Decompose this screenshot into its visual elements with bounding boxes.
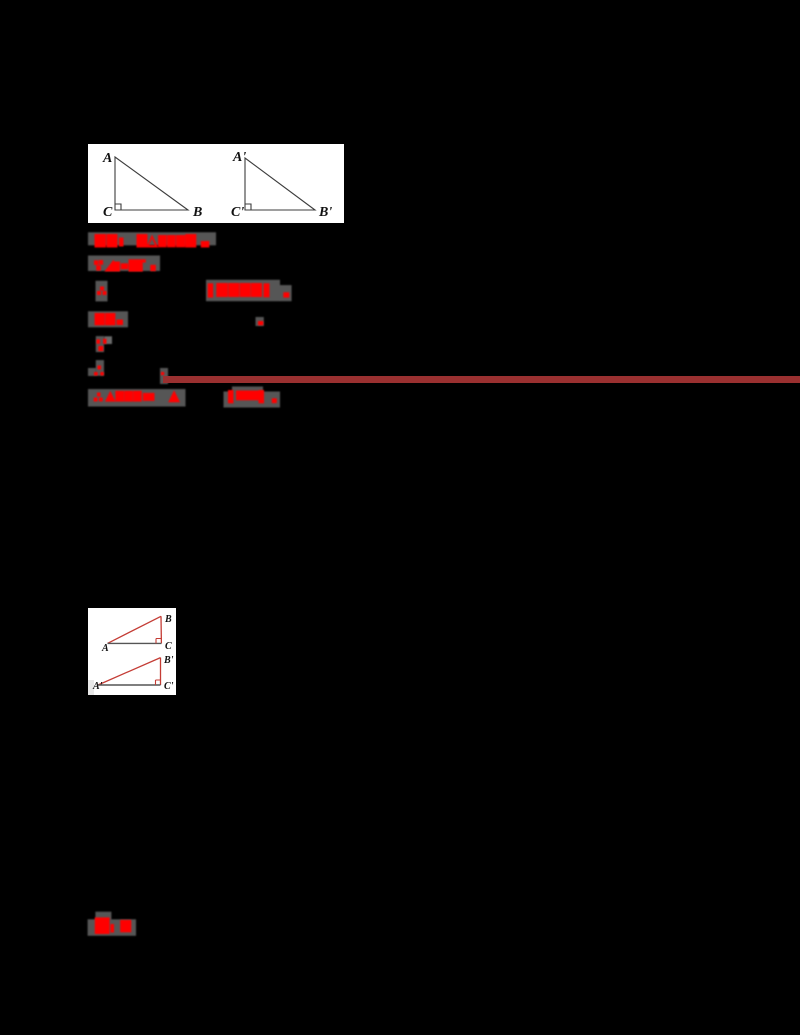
answer text: 解：D	[95, 917, 131, 934]
triangle ABC left	[115, 157, 188, 210]
triangle A'B'C' bottom	[98, 658, 161, 685]
line2 text: ∵∠C=90°，	[94, 259, 156, 271]
line1 text: 证明：在△ABC中，	[95, 234, 210, 248]
line1 highlight	[88, 232, 292, 936]
line4 text: 同理，．	[95, 313, 264, 325]
line3 highlight reason	[206, 280, 280, 301]
faint artifact bottom-left	[88, 680, 94, 695]
line6 text: ∴ " and rule	[94, 366, 164, 376]
right angle mark at C	[115, 204, 121, 210]
line7 text: ∴△ABC≌ △ (HL)．	[94, 390, 277, 403]
line2 highlight	[88, 256, 160, 272]
figure box 1 (triangles ABC and A'B'C')	[88, 144, 344, 223]
figure box 2 (stacked triangles)	[88, 608, 176, 695]
triangle A'B'C' right	[245, 158, 315, 210]
line6 highlight	[96, 360, 104, 376]
line7 highlight	[88, 389, 186, 407]
line5 text: ∵	[97, 339, 107, 351]
dark red rule	[163, 376, 800, 383]
line5 highlight	[96, 336, 104, 352]
right angle at C	[156, 639, 161, 644]
answer highlight	[88, 919, 136, 936]
triangle ABC top: red AB, red BC, gray AC	[108, 616, 162, 643]
line4 highlight	[88, 311, 128, 327]
line3 text: ∴ (勾股定理)．	[97, 283, 289, 298]
line3 highlight therefore	[96, 281, 108, 302]
right angle mark at C'	[245, 204, 251, 210]
